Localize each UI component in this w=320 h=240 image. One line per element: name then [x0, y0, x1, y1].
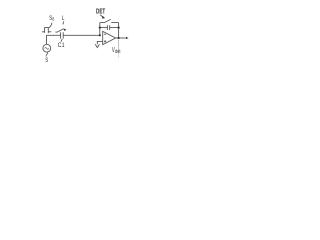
svg-text:DET: DET [96, 9, 106, 16]
svg-text:C1: C1 [58, 43, 65, 50]
svg-text:SB: SB [49, 15, 54, 22]
svg-text:det: det [115, 48, 121, 54]
svg-text:S: S [45, 57, 48, 64]
svg-text:L: L [62, 15, 64, 22]
